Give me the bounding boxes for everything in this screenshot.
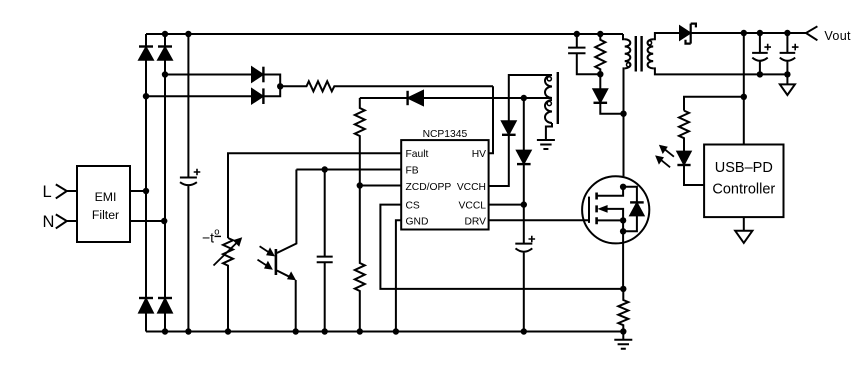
junction: snubber RC bottom node [597,71,603,77]
USB-PD controller block [704,145,783,218]
aux winding polarity dot top [547,77,551,81]
terminal N input chevron [56,214,77,228]
wire: DRV pin to gate [489,219,589,221]
wire: N-line tap to startup OR diode (upper) [165,74,252,76]
MOSFET body diode [623,187,644,232]
wire: Vout sense branch to LED [684,97,744,111]
junction: top rail / bulk cap [185,31,191,37]
wire: CS pin to sense line [380,205,623,289]
svg-text:VCCH: VCCH [457,182,486,193]
junction: bottom rail / sense resistor [620,328,626,334]
svg-text:CS: CS [406,201,420,212]
diode OPP (aux to ZCD) [408,91,551,105]
resistor snubber [595,34,605,74]
wire: L-phase vertical column [145,34,147,332]
wire: MOSFET source to sense resistor [622,243,624,289]
junction: output rail / cap 1 [757,30,763,36]
resistor HV startup series [280,81,493,91]
wire: Fault pin to NTC [228,153,401,238]
junction: output rail / USB-PD feed [741,30,747,36]
capacitor FB filter [317,170,333,332]
wire: HV feed down to HV pin [489,86,493,153]
svg-text:HV: HV [472,149,486,160]
startup diode from N line [252,67,280,87]
MOSFET channel segments [595,193,598,225]
MOSFET source contact [597,220,624,242]
ground: USB-PD controller (open triangle) [735,217,752,243]
junction: bottom rail / N bridge leg [162,328,168,334]
transformer core bars [636,36,642,72]
bridge diode top-left [139,47,153,60]
optocoupler incoming light arrows [258,246,276,269]
resistor current sense [618,289,628,332]
wire: VCCH pin to aux rectifier [489,135,509,186]
junction: source / CS sense tap [620,286,626,292]
svg-text:NCP1345: NCP1345 [423,129,468,140]
wire: Vout feed to USB-PD controller [743,33,745,145]
transformer primary polarity dot [627,63,631,67]
junction: bottom rail / VCC cap [521,328,527,334]
wire: VCCL pin [489,204,524,206]
LED emitted light arrows [655,145,674,168]
svg-text:Filter: Filter [92,208,119,222]
bridge diode top-right [158,47,172,60]
transformer secondary winding [648,33,788,74]
thermistor NTC [214,237,243,331]
MOSFET power switch body circle [582,176,649,243]
junction: startup diodes OR node [277,83,283,89]
MOSFET drain contact [597,187,624,196]
svg-text:N: N [43,213,55,231]
label thermistor -t° [202,227,221,246]
svg-text:Controller: Controller [712,182,775,198]
svg-text:ZCD/OPP: ZCD/OPP [406,182,452,193]
LED optocoupler emitter diode [677,152,704,185]
aux winding core bar [557,72,559,124]
diode output schottky [680,24,806,44]
svg-text:EMI: EMI [95,190,117,204]
IC U1 NCP1345 body [401,140,488,229]
junction: ZCD divider node [357,182,363,188]
junction: aux tap node [521,95,527,101]
MOSFET gate bar [588,197,590,223]
diode VCCL rectifier (aux tap) [517,98,531,205]
diode VCCH rectifier (aux top) [502,75,551,135]
junction: bottom rail / bulk cap [185,328,191,334]
diode clamp (RCD) [594,74,624,114]
junction: MOSFET source internal node upper [620,217,626,223]
ground: aux winding return [537,123,555,149]
svg-text:−t: −t [202,230,214,246]
transformer secondary polarity dot [647,41,651,45]
transformer primary winding [623,34,630,176]
terminal L input chevron [56,184,77,198]
ground: output (open triangle) [780,74,795,95]
wire: top DC bus rail [146,33,623,35]
junction: top rail / snubber resistor [597,31,603,37]
junction: clamp diode to drain node [620,111,626,117]
wire: ZCD/OPP pin to divider [360,185,401,187]
resistor ZCD/OPP upper divider [355,98,365,186]
aux winding polarity dot lower [547,101,551,105]
capacitor output 1 [752,33,771,74]
capacitor snubber [568,34,600,74]
wire: EMI filter L output to bridge [130,190,146,192]
svg-text:GND: GND [406,217,429,228]
junction: MOSFET source internal node lower [620,228,626,234]
junction: N column / EMI output [161,218,167,224]
junction: output rail / cap 2 [784,30,790,36]
resistor ZCD/OPP lower divider [355,186,365,332]
junction: bottom rail / ZCD divider [357,328,363,334]
junction: output ground / cap 1 [757,71,763,77]
junction: USB-PD feed / LED branch [741,94,747,100]
startup diode from L line [252,86,280,104]
wire: GND pin to ground rail [396,220,401,331]
junction: top rail / snubber cap [574,31,580,37]
svg-text:USB–PD: USB–PD [715,160,773,176]
junction: N column / startup diode tap [162,71,168,77]
wire: N-phase vertical column [164,34,166,332]
svg-text:L: L [43,183,52,201]
capacitor bulk electrolytic (DC bus) [180,34,200,332]
wire: aux sense line to ZCD divider [360,97,408,99]
wire: L-line tap to startup OR diode (lower) [146,95,252,97]
junction: bottom rail / IC GND [393,328,399,334]
junction: bottom rail / opto emitter [293,328,299,334]
junction: top rail / N column [162,31,168,37]
optocoupler phototransistor [276,170,297,332]
junction: MOSFET drain internal node [620,184,626,190]
MOSFET body arrow [598,205,624,220]
bridge diode bottom-right [158,298,172,313]
ground: sense resistor (signal ground) [614,332,632,349]
junction: L column / EMI output [143,188,149,194]
svg-text:Vout: Vout [824,29,851,43]
svg-text:Fault: Fault [406,149,429,160]
capacitor output 2 [780,33,799,74]
svg-text:DRV: DRV [464,217,486,228]
junction: L column / startup diode tap [143,93,149,99]
terminal Vout chevron [806,26,817,40]
aux winding coil [545,75,552,123]
junction: bottom rail / FB cap [322,328,328,334]
svg-text:VCCL: VCCL [459,201,487,212]
EMI filter block [77,166,130,242]
junction: bottom rail / thermistor [225,328,231,334]
wire: primary ground bottom rail [146,331,623,333]
capacitor VCC [515,205,535,332]
wire: EMI filter N output to bridge [130,220,164,222]
resistor LED series [679,111,689,152]
bridge diode bottom-left [139,298,153,313]
junction: FB capacitor node [322,166,328,172]
junction: VCCL node [521,201,527,207]
wire: FB pin line [296,169,401,171]
junction: output ground / cap 2 [784,71,790,77]
svg-text:FB: FB [406,166,419,177]
